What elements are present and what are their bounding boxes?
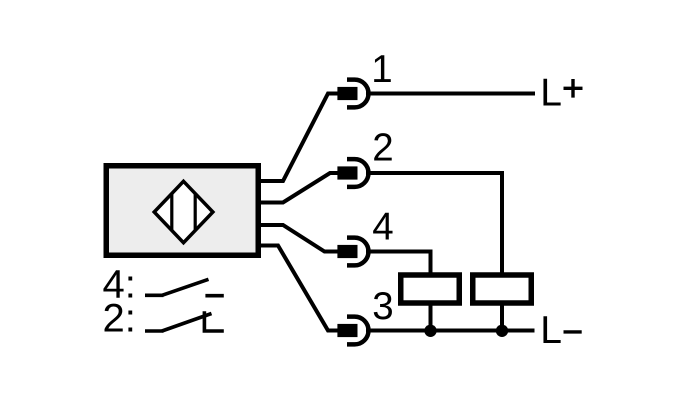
- load RL1: [401, 275, 460, 303]
- svg-text:1: 1: [371, 48, 392, 91]
- svg-text:L: L: [540, 71, 562, 114]
- load RL2: [473, 275, 532, 303]
- proximity sensor symbol (diamond): [154, 181, 213, 242]
- wire pin3 to L-: [366, 329, 535, 333]
- connector pin 3: [337, 317, 368, 345]
- svg-text:2: 2: [372, 126, 393, 169]
- connector pin 1: [337, 80, 368, 108]
- svg-text:4: 4: [372, 205, 393, 248]
- connector pin 2: [337, 159, 368, 187]
- wire RL1 to L- rail: [429, 303, 433, 331]
- junction dot node A: [424, 325, 436, 337]
- net label L+: [540, 71, 582, 114]
- wire pin1 from box: [256, 94, 341, 182]
- wire pin3 from box: [256, 246, 341, 331]
- wire pin1 to L+: [366, 92, 535, 96]
- svg-text:2:: 2:: [103, 297, 136, 341]
- svg-text:3: 3: [372, 285, 393, 328]
- net label L-: [540, 309, 581, 352]
- wire RL2 to L- rail: [500, 303, 504, 331]
- switch S2 normally closed: [145, 311, 224, 331]
- switch S4 normally open: [145, 279, 224, 295]
- wire pin2 to load RL2: [366, 173, 502, 277]
- wire pin2 from box: [256, 173, 341, 203]
- junction dot node B: [496, 325, 508, 337]
- wire pin4 to load RL1: [366, 252, 431, 278]
- sensor box U1: [106, 166, 258, 256]
- connector pin 4: [337, 238, 368, 266]
- svg-text:L: L: [540, 309, 562, 352]
- wire pin4 from box: [256, 225, 341, 252]
